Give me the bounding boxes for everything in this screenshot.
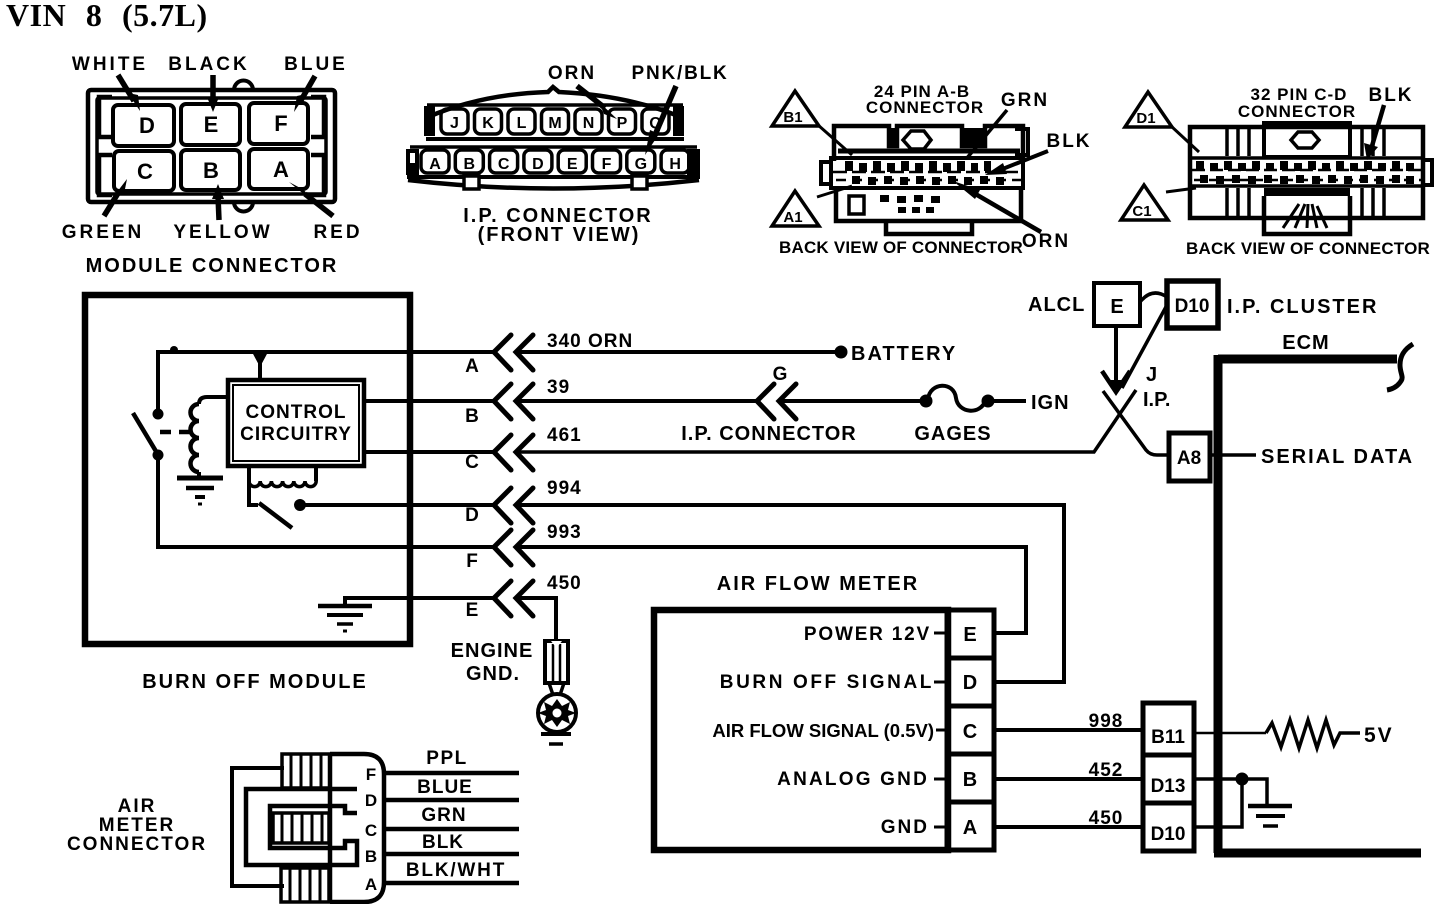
heater coil L2 (below control circuitry) [249,466,316,487]
svg-text:C: C [963,721,977,743]
svg-text:B: B [365,847,377,866]
ribbed block middle [273,813,329,843]
svg-text:ENGINE: ENGINE [451,640,534,662]
svg-text:A: A [273,157,289,182]
svg-text:E: E [963,624,976,646]
svg-text:IGN: IGN [1031,392,1070,414]
wire GRN (pin C) [384,805,519,829]
callout triangle B1 [772,91,852,155]
air meter connector pin letters [365,765,377,894]
wire D10 down to junction J [1122,305,1167,388]
svg-text:5V: 5V [1364,724,1394,747]
connector chevrons pin A [465,335,533,377]
caption I.P. CONNECTOR (FRONT VIEW) [463,205,653,246]
ribbed block bottom [281,868,329,902]
svg-text:ANALOG GND: ANALOG GND [777,769,929,790]
caption MODULE CONNECTOR [86,255,339,277]
wire net C inside module [364,450,412,454]
svg-text:994: 994 [547,478,582,499]
ribbed block top [282,754,330,788]
engine ground terminal [451,640,576,744]
svg-text:CONTROL: CONTROL [246,402,347,423]
svg-text:A: A [465,356,479,377]
svg-text:BURN OFF SIGNAL: BURN OFF SIGNAL [720,672,934,693]
wire ALCL E down to junction J [1114,326,1118,388]
pin L [508,109,535,134]
svg-text:BLACK: BLACK [168,54,250,75]
svg-text:A1: A1 [783,209,802,226]
pin M [542,109,569,134]
svg-text:C: C [498,156,510,173]
wire 998 (C to B11) [996,711,1141,732]
svg-text:WHITE: WHITE [72,54,148,75]
wire E box to D10 box [1140,293,1167,302]
label BLACK [168,54,250,112]
wire D10 up to junction [1194,779,1242,827]
label YELLOW [173,184,272,243]
wire D13 to ground junction [1194,779,1267,804]
svg-text:C: C [137,159,153,184]
title VIN 8 (5.7L) [6,0,208,33]
svg-text:METER: METER [99,815,176,836]
svg-text:K: K [482,115,494,132]
wire net E (450) to engine ground [517,598,556,641]
wire stub E to connector [412,596,495,600]
pin D cavity [113,105,174,146]
svg-text:I.P.: I.P. [1143,389,1170,411]
svg-text:450: 450 [1089,808,1124,829]
fuse GAGES [914,386,994,445]
svg-text:ORN: ORN [548,63,596,84]
label GREEN [62,179,145,243]
wire net A to battery [517,343,957,365]
pin F (IP) [593,150,621,173]
wire net B to gages fuse [780,399,923,403]
relay coil L1 [191,397,229,477]
pin rows (back view pins) [845,161,1004,213]
svg-text:340 ORN: 340 ORN [547,331,633,352]
ECM boundary bottom [1214,849,1421,858]
ALCL connector pin E [1028,283,1140,326]
pin C (IP) [490,150,518,173]
wire net F inside module [158,455,412,547]
svg-text:C: C [465,452,479,473]
wire stub B to connector [412,399,495,403]
junction dot (analog ground) [1236,773,1249,786]
wire stub C to connector [412,450,495,454]
svg-text:D13: D13 [1151,776,1186,797]
svg-text:B: B [464,156,476,173]
I.P. cluster pin D10 [1167,281,1378,328]
svg-text:ECM: ECM [1282,332,1329,354]
I.P. connector (front view) body [406,87,700,189]
svg-text:PPL: PPL [426,748,467,769]
svg-text:POWER 12V: POWER 12V [804,624,931,645]
pin F cavity [249,103,308,144]
pin A cavity [249,149,308,189]
svg-text:AIR FLOW SIGNAL (0.5V): AIR FLOW SIGNAL (0.5V) [712,720,934,741]
svg-text:M: M [548,115,561,132]
svg-text:BURN OFF MODULE: BURN OFF MODULE [142,671,368,693]
svg-text:J: J [1146,364,1157,386]
svg-text:F: F [366,765,376,784]
connector mounting feet [464,176,479,189]
connector chevrons pin B [465,384,533,427]
svg-text:PNK/BLK: PNK/BLK [631,63,728,84]
dashed actuator link [160,430,196,435]
svg-text:F: F [466,551,478,572]
svg-text:D: D [365,791,377,810]
svg-text:A8: A8 [1177,448,1201,469]
ECM pin D13 [1143,755,1194,803]
wire BLK/WHT (pin A) [384,860,519,883]
svg-text:SERIAL DATA: SERIAL DATA [1261,446,1414,468]
wire BLK (pin B) [384,832,519,854]
svg-text:P: P [617,115,628,132]
keyway hexagon [903,131,931,149]
connector chevrons pin F [466,530,533,572]
crossover wire to serial data [1103,391,1169,455]
svg-text:BACK VIEW OF CONNECTOR: BACK VIEW OF CONNECTOR [1186,239,1430,258]
svg-text:G: G [635,156,647,173]
24 pin A-B connector title [866,82,984,117]
pin H (IP) [661,150,689,173]
connector chevrons pin C [465,435,533,473]
svg-text:D: D [465,505,479,526]
svg-text:461: 461 [547,425,582,446]
module connector J1 (top-left) [88,81,335,212]
svg-text:GRN: GRN [421,805,466,826]
caption BACK VIEW OF CONNECTOR (32 pin) [1186,239,1430,258]
ECM pin B11 [1143,703,1194,755]
svg-text:RED: RED [313,222,362,243]
wire B11 to 5V resistor [1194,732,1266,735]
pin E cavity [181,104,240,145]
rear bracket [232,768,284,886]
lock washer star [538,699,576,727]
junction arrow to control circuitry [252,352,268,380]
svg-text:BLK: BLK [422,832,464,853]
pin C cavity [114,151,174,191]
resistor R1 (5V pull-up) [1266,720,1394,748]
wire stub D to connector [304,503,495,507]
label BLUE [284,54,348,112]
svg-text:C: C [365,821,377,840]
junction dot on net A [170,346,178,354]
pin E (IP) [558,150,586,173]
svg-text:MODULE CONNECTOR: MODULE CONNECTOR [86,255,339,277]
svg-text:450: 450 [547,573,582,594]
pin B (IP) [455,150,483,173]
wire stub F to connector [412,545,495,549]
svg-text:B1: B1 [783,109,802,126]
callout triangle C1 [1121,185,1196,220]
svg-text:452: 452 [1089,760,1124,781]
wire serial data [1210,446,1414,468]
svg-text:D10: D10 [1175,296,1210,317]
svg-text:BLK/WHT: BLK/WHT [406,860,506,881]
bottom tab with hatch [1264,190,1272,196]
svg-text:BLUE: BLUE [417,777,473,798]
32 pin C-D connector title [1238,85,1356,121]
svg-text:N: N [583,115,595,132]
wire net A inside module [158,352,412,414]
svg-text:VIN 8 (5.7L): VIN 8 (5.7L) [6,0,208,33]
air flow meter pin A [881,802,994,850]
svg-text:F: F [602,156,612,173]
label GRN (24 pin) [967,90,1049,158]
wire net B to I.P. connector G [517,399,757,403]
wire stub A to connector [412,350,495,354]
svg-text:YELLOW: YELLOW [173,222,272,243]
ECM boundary vertical [1214,355,1223,853]
ground (relay coil) [177,478,223,504]
svg-text:39: 39 [547,377,570,398]
svg-text:GREEN: GREEN [62,222,145,243]
label ORN (24 pin) [953,181,1070,252]
svg-text:BLK: BLK [1368,85,1413,106]
keyway hexagon [1291,132,1319,148]
svg-text:CIRCUITRY: CIRCUITRY [240,424,352,445]
svg-text:H: H [669,156,681,173]
svg-text:A: A [429,156,441,173]
svg-text:E: E [466,600,479,621]
air flow meter pin C [712,706,994,754]
svg-text:GAGES: GAGES [914,423,991,445]
label BLK (32 pin) [1364,85,1414,160]
pin Q [642,109,669,134]
svg-text:CONNECTOR: CONNECTOR [1238,102,1356,121]
ECM connector pin A8 [1169,433,1210,481]
caption BACK VIEW OF CONNECTOR (24 pin) [779,238,1023,257]
svg-text:A: A [963,817,977,839]
svg-text:993: 993 [547,522,582,543]
svg-text:GRN: GRN [1001,90,1049,111]
ECM wire break symbol [1387,344,1413,390]
svg-text:D10: D10 [1151,824,1186,845]
wire BLUE (pin D) [384,777,519,800]
svg-text:F: F [274,111,287,136]
svg-text:A: A [365,875,377,894]
arrowhead at junction J [1102,371,1130,394]
svg-text:D: D [963,672,977,694]
air flow meter pin D [720,658,994,706]
svg-text:E: E [204,112,219,137]
C-clamp shell [246,789,357,865]
wire net C to I.P. crossover [517,390,1136,452]
ECM boundary top [1218,355,1397,364]
svg-text:C1: C1 [1132,203,1151,220]
svg-text:B: B [465,406,479,427]
air meter connector label [67,796,207,855]
svg-text:GND: GND [881,817,929,838]
relay switch S1 (upper) [133,409,164,461]
ECM pin D10 [1143,803,1194,851]
svg-text:CONNECTOR: CONNECTOR [67,834,207,855]
svg-text:E: E [567,156,578,173]
svg-text:J: J [450,115,459,132]
svg-text:E: E [1110,296,1123,318]
I.P. connector pin G chevrons [681,364,857,445]
pin B cavity [181,150,240,190]
svg-text:BATTERY: BATTERY [851,343,957,365]
air flow meter pin B [777,754,994,802]
svg-text:B: B [963,769,977,791]
svg-text:ORN: ORN [1022,231,1070,252]
connector 32-pin body (back view) [1190,123,1432,234]
wire net E inside module [345,598,412,604]
pin N [575,109,602,134]
label PNK/BLK (IP connector) [631,63,728,155]
svg-text:ALCL: ALCL [1028,294,1085,316]
svg-text:B11: B11 [1151,727,1185,748]
air flow meter box [654,573,948,850]
svg-text:I.P. CONNECTOR: I.P. CONNECTOR [681,423,857,445]
pin P [609,109,636,134]
wire net F (993) to air flow meter E [517,547,1026,633]
ground (module internal, net E) [318,606,372,631]
relay switch S2 (lower, to net D) [249,479,306,528]
rib lines [1227,129,1249,156]
label RED [289,182,363,243]
svg-text:(FRONT VIEW): (FRONT VIEW) [478,224,641,246]
pin marks [1196,161,1414,184]
pin K [475,109,502,134]
svg-text:D: D [532,156,544,173]
connector 24-pin body (back view) [821,126,1028,234]
wire net B inside module [364,399,412,403]
svg-text:B: B [203,158,219,183]
ground (analog/ECM) [1248,806,1292,826]
svg-text:CONNECTOR: CONNECTOR [866,98,984,117]
label BLK (24 pin) [985,131,1092,175]
pin J [441,109,468,134]
callout triangle D1 [1125,92,1199,152]
control circuitry U1 [228,380,364,466]
wire PPL (pin F) [384,748,519,773]
label ORN (IP connector) [548,63,617,119]
air flow meter pin E [804,610,994,658]
svg-text:BLUE: BLUE [284,54,348,75]
connector chevrons pin E [466,581,533,621]
label WHITE [72,54,148,111]
svg-text:BLK: BLK [1046,131,1091,152]
burn off module box [85,295,410,693]
wire 450 (A to D10) [996,808,1141,829]
callout triangle A1 [772,186,852,226]
svg-text:AIR: AIR [118,796,157,817]
pin D (IP) [524,150,552,173]
svg-text:L: L [517,115,527,132]
wire to IGN [994,392,1070,414]
svg-text:AIR FLOW METER: AIR FLOW METER [717,573,919,595]
wire net D (994) to air flow meter D [517,505,1064,682]
svg-text:998: 998 [1089,711,1124,732]
svg-text:I.P. CLUSTER: I.P. CLUSTER [1227,296,1378,318]
connector chevrons pin D [465,488,533,526]
svg-text:D: D [139,113,155,138]
air meter connector body [232,754,384,902]
wire 452 (B to D13) [996,760,1141,781]
pin A (IP) [421,150,449,173]
pin G (IP) [627,150,655,173]
svg-text:D1: D1 [1136,110,1155,127]
svg-text:BACK VIEW OF CONNECTOR: BACK VIEW OF CONNECTOR [779,238,1023,257]
svg-text:GND.: GND. [466,663,520,685]
